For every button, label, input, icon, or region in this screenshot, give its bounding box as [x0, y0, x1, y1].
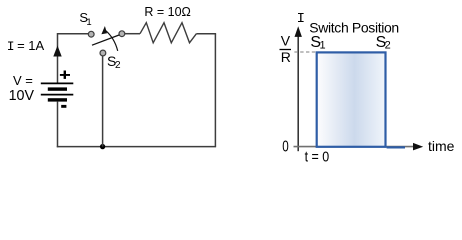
label V over R fraction — [280, 32, 292, 64]
svg-text:S1: S1 — [310, 34, 325, 51]
battery V1 plate short thick lower — [48, 98, 67, 101]
svg-text:time: time — [428, 138, 455, 154]
svg-text:10V: 10V — [9, 87, 34, 104]
svg-text:S2: S2 — [107, 53, 121, 71]
svg-text:= 1A: = 1A — [17, 38, 44, 53]
dashed level line V/R — [294, 51, 316, 53]
svg-text:t = 0: t = 0 — [305, 149, 330, 166]
svg-text:I: I — [297, 11, 305, 27]
current direction arrow — [53, 46, 61, 57]
switch throw contact right — [119, 31, 125, 37]
svg-text:R = 10Ω: R = 10Ω — [144, 4, 191, 19]
svg-text:0: 0 — [282, 139, 289, 156]
label + terminal — [60, 71, 70, 79]
label - terminal — [61, 105, 66, 108]
graph x-axis — [294, 146, 414, 148]
pulse waveform rectangle — [317, 52, 386, 146]
graph y-axis — [297, 33, 299, 151]
wire left vertical — [57, 33, 59, 83]
graph y-axis arrowhead — [295, 26, 302, 37]
switch S1 pole contact — [88, 31, 94, 37]
wire S2 vertical — [102, 56, 104, 147]
svg-text:Switch Position: Switch Position — [309, 20, 399, 36]
wire switch to resistor — [125, 33, 140, 35]
wire resistor to right corner — [196, 33, 216, 35]
svg-text:S1: S1 — [79, 10, 91, 28]
svg-text:I: I — [7, 39, 15, 54]
battery V1 plate long top — [41, 82, 74, 84]
svg-text:S2: S2 — [376, 34, 391, 51]
battery V1 plate short thick upper — [48, 87, 67, 90]
graph x-axis arrowhead — [413, 143, 423, 151]
wire top-left horizontal — [58, 33, 89, 35]
pulse tail along axis — [387, 146, 405, 148]
label I = 1A — [7, 38, 45, 54]
svg-text:R: R — [281, 49, 291, 65]
switch motion arrowhead — [101, 26, 107, 34]
resistor R1 zigzag — [140, 23, 196, 43]
wire right vertical — [214, 34, 216, 147]
switch arm — [92, 35, 119, 45]
wire left vertical lower — [57, 102, 59, 148]
wire bottom horizontal — [57, 146, 216, 148]
switch motion arc — [105, 30, 118, 51]
svg-text:V: V — [281, 32, 291, 48]
svg-text:V =: V = — [13, 73, 33, 88]
switch S2 throw contact bottom — [100, 50, 106, 56]
battery V1 plate long mid — [41, 94, 74, 96]
junction node — [100, 144, 105, 149]
